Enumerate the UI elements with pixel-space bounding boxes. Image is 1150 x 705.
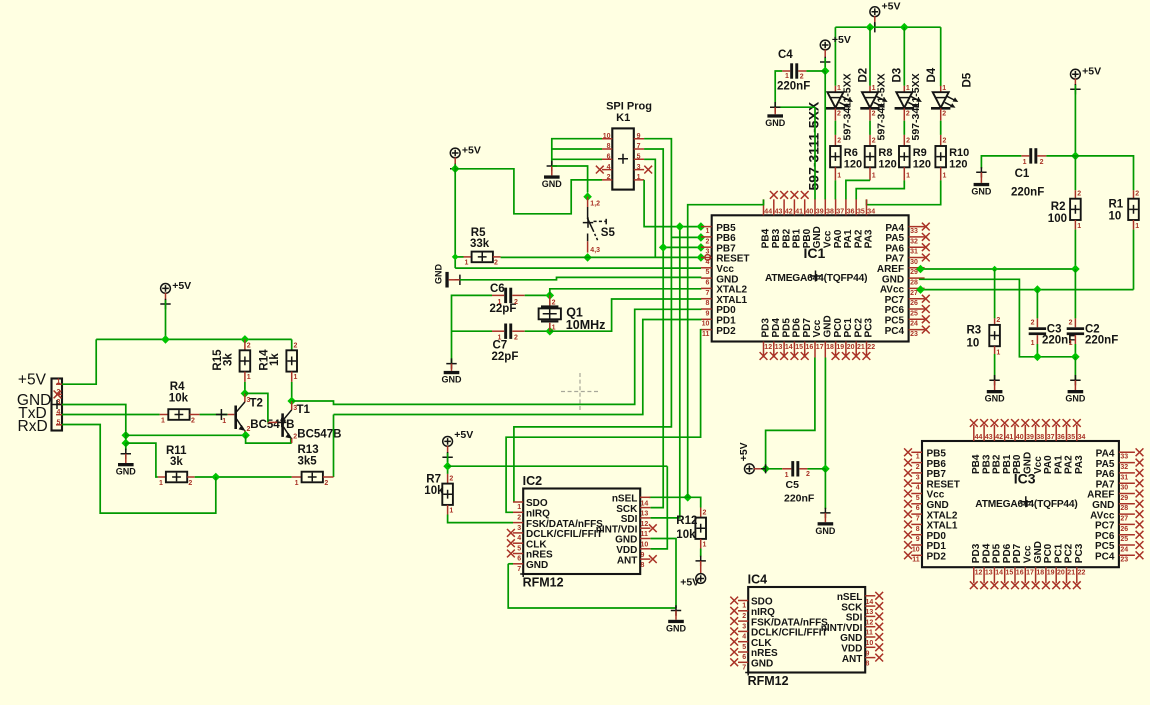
- wire +5V stub R5: [454, 157, 456, 164]
- no-connect IC3 left: [904, 490, 912, 498]
- svg-text:R9: R9: [913, 147, 927, 159]
- pin C6 right: [512, 294, 524, 296]
- svg-text:2: 2: [324, 480, 328, 487]
- svg-text:2: 2: [906, 138, 910, 145]
- pin R15 top: [244, 339, 246, 350]
- svg-text:GND: GND: [666, 623, 687, 633]
- wire C6 to XTAL2: [525, 294, 550, 296]
- no-connect IC3 top: [970, 419, 978, 427]
- svg-text:1: 1: [916, 454, 920, 461]
- svg-text:+5V: +5V: [738, 442, 750, 461]
- svg-text:1: 1: [837, 173, 841, 180]
- pin R11 left: [158, 476, 166, 478]
- wire D5 to resistor: [940, 121, 942, 135]
- svg-text:8: 8: [866, 661, 870, 668]
- wire C2 to GND: [1074, 357, 1076, 380]
- no-connect IC2 nINT: [649, 524, 657, 532]
- svg-text:12: 12: [641, 521, 649, 528]
- svg-text:1: 1: [1135, 223, 1139, 230]
- no-connect IC3 bottom: [980, 581, 988, 589]
- resistor R15: [240, 350, 251, 371]
- ground near K1: [542, 175, 563, 189]
- no-connect IC3 left: [904, 459, 912, 467]
- svg-text:D5: D5: [961, 72, 973, 87]
- svg-text:4: 4: [742, 634, 746, 641]
- wire R10 bottom stub: [940, 167, 942, 180]
- node +5V R5: [451, 165, 460, 174]
- svg-text:5: 5: [517, 545, 521, 552]
- svg-text:SPI Prog: SPI Prog: [606, 101, 652, 113]
- ground C5: [815, 522, 836, 536]
- svg-text:11: 11: [912, 557, 920, 564]
- wire LED supply rail: [835, 26, 940, 28]
- no-connect K1 pin 3: [644, 166, 652, 174]
- IC IC3 pins: [911, 425, 1135, 583]
- no-connect IC3 bottom: [991, 581, 999, 589]
- svg-text:2: 2: [191, 417, 195, 424]
- svg-text:PD2: PD2: [927, 552, 947, 563]
- node Q1 top: [546, 291, 555, 300]
- no-connect IC1 PA7: [922, 254, 930, 262]
- wire +5V stub: [874, 16, 876, 23]
- no-connect IC3 top: [1011, 419, 1019, 427]
- svg-text:24: 24: [1120, 546, 1128, 553]
- svg-text:3: 3: [742, 623, 746, 630]
- svg-text:10: 10: [702, 321, 710, 328]
- wire R6 to PA0: [834, 180, 836, 199]
- wire PB5 to SDI: [651, 227, 680, 518]
- svg-text:1: 1: [552, 325, 556, 332]
- svg-text:31: 31: [1120, 474, 1128, 481]
- pin R3 bottom: [994, 346, 996, 354]
- wire C6 to GND: [452, 295, 493, 363]
- no-connect IC3 bottom: [970, 581, 978, 589]
- node RxD divider: [212, 473, 221, 482]
- pin T2 base: [228, 414, 235, 416]
- wire +5V stub C4: [824, 49, 826, 58]
- wire Vcc row: [455, 267, 701, 269]
- wire PD2 to nIRQ: [506, 330, 701, 513]
- svg-text:9: 9: [866, 650, 870, 657]
- svg-text:43: 43: [985, 434, 993, 441]
- no-connect IC4 right: [875, 633, 883, 641]
- svg-text:42: 42: [995, 434, 1003, 441]
- connector K1 body: [612, 128, 634, 189]
- svg-text:31: 31: [910, 249, 918, 256]
- svg-text:14: 14: [641, 500, 649, 507]
- svg-text:10: 10: [967, 338, 980, 350]
- svg-text:41: 41: [795, 209, 803, 216]
- wire GND stub K1: [551, 166, 553, 175]
- pin C3 top: [1036, 318, 1038, 327]
- no-connect IC3 right: [1136, 459, 1144, 467]
- wire D2 anode stub: [834, 86, 836, 92]
- wire C3 down: [1036, 344, 1038, 357]
- wire D3 cathode stub: [869, 108, 871, 120]
- svg-text:+5V: +5V: [18, 371, 47, 388]
- svg-text:19: 19: [1047, 570, 1055, 577]
- no-connect IC1 PC3: [863, 352, 871, 360]
- resistor R7: [442, 484, 453, 505]
- svg-text:1: 1: [498, 299, 502, 306]
- svg-text:R8: R8: [878, 147, 892, 159]
- pin T2 emitter: [244, 430, 246, 435]
- svg-text:GND: GND: [434, 264, 444, 285]
- svg-text:1: 1: [742, 603, 746, 610]
- svg-text:597-3411-5XX: 597-3411-5XX: [876, 73, 888, 140]
- svg-text:1: 1: [294, 374, 298, 381]
- svg-text:5: 5: [705, 269, 709, 276]
- pin C1 right: [1037, 155, 1046, 157]
- wire R6 bottom stub: [834, 167, 836, 180]
- svg-text:2: 2: [552, 300, 556, 307]
- capacitor C4: [790, 63, 798, 78]
- svg-text:20: 20: [847, 344, 855, 351]
- ground XTAL rotated: [434, 264, 449, 288]
- svg-text:29: 29: [1120, 495, 1128, 502]
- svg-text:R3: R3: [967, 325, 982, 337]
- svg-text:2: 2: [872, 138, 876, 145]
- node C3 gnd: [1033, 353, 1042, 362]
- IC IC4 pins: [738, 596, 875, 672]
- pin R3 top: [994, 318, 996, 325]
- wire D2 cathode stub: [834, 108, 836, 120]
- no-connect IC1 PD3: [760, 352, 768, 360]
- wire resistor top stub D3: [869, 135, 871, 146]
- svg-text:1: 1: [159, 480, 163, 487]
- svg-text:T2: T2: [250, 397, 263, 409]
- svg-text:3k: 3k: [170, 456, 183, 468]
- wire C5 left: [766, 468, 783, 470]
- wire SCK K1 to PB7 to IC2: [644, 149, 663, 508]
- no-connect IC3 right: [1136, 510, 1144, 518]
- svg-text:36: 36: [1057, 434, 1065, 441]
- wire C1 to node: [1046, 155, 1075, 157]
- no-connect IC3 top: [1032, 419, 1040, 427]
- switch S5: [587, 207, 606, 241]
- wire +5V to VDD: [448, 465, 668, 467]
- wire GND down: [125, 443, 127, 450]
- svg-text:17: 17: [1026, 570, 1034, 577]
- svg-text:IC1: IC1: [804, 245, 826, 261]
- node T2 collector: [241, 389, 250, 398]
- no-connect IC1 PD4: [770, 352, 778, 360]
- no-connect IC4 left: [730, 658, 738, 666]
- svg-text:26: 26: [910, 300, 918, 307]
- svg-text:13: 13: [985, 570, 993, 577]
- no-connect IC3 right: [1136, 531, 1144, 539]
- svg-text:6: 6: [705, 280, 709, 287]
- pin GND stub IC2: [675, 611, 677, 620]
- svg-text:4: 4: [57, 409, 61, 416]
- wire +5V to R7: [447, 453, 449, 474]
- svg-text:GND: GND: [1065, 394, 1086, 404]
- wire GND to S5: [552, 166, 588, 193]
- svg-text:1: 1: [996, 349, 1000, 356]
- pin Q1 top: [549, 295, 551, 306]
- wire AREF to C2: [1074, 269, 1076, 318]
- node PB5 branch: [676, 222, 685, 231]
- resistor R14: [286, 350, 297, 371]
- svg-text:4,3: 4,3: [590, 247, 600, 254]
- ground C1: [971, 183, 992, 197]
- node PB7 pin: [697, 243, 706, 252]
- svg-text:4: 4: [705, 259, 709, 266]
- ground IC2: [666, 620, 687, 634]
- svg-text:2: 2: [942, 110, 946, 117]
- no-connect IC4 right: [875, 654, 883, 662]
- resistor R10: [935, 146, 946, 167]
- svg-text:11: 11: [702, 331, 710, 338]
- pin R7 bottom: [447, 505, 449, 515]
- svg-text:1: 1: [1023, 159, 1027, 166]
- svg-text:35: 35: [1067, 434, 1075, 441]
- wire PB4 to nSEL: [688, 200, 764, 494]
- wire K1 pin8 to GND: [552, 148, 602, 150]
- svg-text:3: 3: [916, 474, 920, 481]
- wire resistor top stub D4: [903, 135, 905, 146]
- wire +5V down: [824, 58, 826, 71]
- pin C5 right: [799, 468, 807, 470]
- svg-text:32: 32: [1120, 464, 1128, 471]
- svg-text:10: 10: [1109, 211, 1122, 223]
- no-connect IC4 right: [875, 643, 883, 651]
- wire GND row to IC1 pin6: [460, 277, 702, 279]
- wire Vcc17 to C5: [766, 358, 815, 466]
- pin R14 bottom: [291, 372, 293, 382]
- pin +5V inv stub: [700, 561, 702, 574]
- no-connect IC1 PD6: [791, 352, 799, 360]
- svg-text:R4: R4: [170, 381, 185, 393]
- svg-text:37: 37: [836, 209, 844, 216]
- pin R4 right: [190, 414, 200, 416]
- svg-text:14: 14: [785, 344, 793, 351]
- svg-text:R13: R13: [298, 444, 319, 456]
- wire rail to D2: [834, 27, 836, 86]
- svg-text:1: 1: [222, 418, 226, 425]
- svg-text:26: 26: [1120, 526, 1128, 533]
- wire MOSI K1 to PB5: [644, 180, 701, 227]
- node GND R11: [122, 439, 131, 448]
- svg-text:32: 32: [910, 238, 918, 245]
- no-connect IC3 bottom: [1021, 581, 1029, 589]
- pin R1 bottom: [1133, 220, 1135, 230]
- wire R9 to PA2: [856, 180, 904, 199]
- svg-text:K1: K1: [616, 112, 630, 124]
- no-connect IC3 left: [904, 510, 912, 518]
- wire R4 to T2 base: [200, 414, 228, 416]
- wire K1 pin5 to RESET: [644, 159, 655, 257]
- wire R9 bottom stub: [903, 167, 905, 180]
- no-connect IC3 left: [904, 469, 912, 477]
- pin GND stub left: [125, 454, 127, 463]
- no-connect IC3 right: [1136, 448, 1144, 456]
- node AREF R2: [1071, 265, 1080, 274]
- svg-text:14: 14: [866, 599, 874, 606]
- svg-text:2: 2: [607, 174, 611, 181]
- svg-text:10: 10: [912, 546, 920, 553]
- svg-text:3k5: 3k5: [298, 455, 318, 467]
- IC IC1 pins: [701, 199, 925, 357]
- pin GND rotated: [449, 279, 460, 281]
- svg-text:IC2: IC2: [523, 474, 543, 488]
- svg-text:1: 1: [161, 417, 165, 424]
- no-connect IC3 right: [1136, 521, 1144, 529]
- pin R4 left: [160, 414, 169, 416]
- wire D5 anode stub: [940, 86, 942, 92]
- no-connect IC3 right: [1136, 500, 1144, 508]
- svg-text:1: 1: [465, 260, 469, 267]
- wire IC2 gnd10: [651, 539, 677, 609]
- pin Q1 bottom: [549, 323, 551, 331]
- wire R1 to AVcc: [1133, 230, 1135, 290]
- svg-text:2: 2: [703, 510, 707, 517]
- svg-text:1: 1: [498, 335, 502, 342]
- svg-text:2: 2: [742, 613, 746, 620]
- resistor R11: [166, 472, 187, 483]
- svg-text:1: 1: [785, 472, 789, 479]
- pin C2 bottom: [1074, 335, 1076, 344]
- resistor R4: [168, 409, 189, 420]
- wire D5 cathode stub: [940, 108, 942, 120]
- svg-text:+5V: +5V: [462, 144, 481, 156]
- no-connect IC3 top: [1063, 419, 1071, 427]
- svg-text:27: 27: [1120, 516, 1128, 523]
- wire AGND row: [919, 279, 1076, 357]
- svg-text:1: 1: [872, 173, 876, 180]
- svg-text:S5: S5: [601, 227, 616, 239]
- wire C5 to GND: [824, 469, 826, 509]
- node C4-Vcc: [821, 67, 830, 76]
- svg-text:GND: GND: [985, 394, 1006, 404]
- +5V supply top: [870, 7, 880, 17]
- svg-text:41: 41: [1006, 434, 1014, 441]
- resistor R5: [472, 252, 493, 263]
- svg-text:21: 21: [857, 344, 865, 351]
- no-connect IC3 left: [904, 541, 912, 549]
- wire RESET net: [501, 256, 701, 258]
- no-connect connector pin2: [54, 391, 62, 399]
- svg-text:40: 40: [1016, 434, 1024, 441]
- svg-text:2: 2: [1135, 191, 1139, 198]
- pin GND stub C6: [451, 364, 453, 371]
- svg-text:3k: 3k: [222, 353, 234, 366]
- svg-text:2: 2: [996, 317, 1000, 324]
- svg-text:23: 23: [910, 331, 918, 338]
- svg-text:+5V: +5V: [882, 0, 901, 12]
- resistor R9: [899, 146, 910, 167]
- node T2 emitter: [241, 431, 250, 440]
- svg-text:44: 44: [764, 209, 772, 216]
- svg-text:D4: D4: [926, 67, 938, 82]
- no-connect IC1 PC5: [922, 315, 930, 323]
- svg-text:2: 2: [1077, 191, 1081, 198]
- capacitor C5: [791, 461, 799, 476]
- node R7 +5V: [443, 462, 452, 471]
- wire C2 down: [1074, 344, 1076, 357]
- svg-text:29: 29: [910, 269, 918, 276]
- wire R14 to T1 collector: [291, 382, 293, 401]
- svg-text:2: 2: [247, 342, 251, 349]
- wire GND to T2 emitter: [126, 434, 246, 436]
- pin R11 right: [187, 476, 195, 478]
- svg-text:120: 120: [913, 158, 931, 170]
- no-connect IC1 PD5: [780, 352, 788, 360]
- node rail-D4: [900, 23, 909, 32]
- wire rail to D3: [869, 27, 871, 86]
- wire D3 anode stub: [869, 86, 871, 92]
- svg-text:2: 2: [514, 335, 518, 342]
- ground R3: [985, 390, 1006, 404]
- svg-text:5: 5: [57, 419, 61, 426]
- svg-text:120: 120: [844, 158, 862, 170]
- IC IC2 pins: [513, 497, 650, 573]
- node rail R15: [241, 335, 250, 344]
- svg-text:10: 10: [641, 542, 649, 549]
- wire R10 to PA3: [867, 180, 941, 204]
- svg-text:39: 39: [1026, 434, 1034, 441]
- wire TxD to R4: [62, 414, 160, 416]
- wire VDD riser: [651, 466, 668, 549]
- pin R15 bottom: [244, 372, 246, 382]
- svg-text:ANT: ANT: [617, 555, 638, 566]
- svg-text:PA3: PA3: [864, 229, 875, 248]
- svg-text:+5V: +5V: [172, 280, 191, 292]
- svg-text:13: 13: [775, 344, 783, 351]
- svg-text:PD2: PD2: [716, 326, 736, 337]
- svg-text:2: 2: [705, 238, 709, 245]
- svg-text:7: 7: [517, 566, 521, 573]
- wire GND to R11: [126, 443, 158, 477]
- wire D2 to resistor: [834, 121, 836, 135]
- +5V supply below R12: [696, 574, 706, 584]
- capacitor C6: [504, 288, 512, 303]
- svg-text:GND: GND: [542, 179, 563, 189]
- svg-text:12: 12: [866, 619, 874, 626]
- svg-text:RxD: RxD: [18, 418, 48, 435]
- pin R2 bottom: [1074, 220, 1076, 230]
- no-connect IC3 top: [1052, 419, 1060, 427]
- no-connect IC1 PA6: [922, 243, 930, 251]
- pin R12 bottom: [700, 539, 702, 549]
- svg-text:4: 4: [916, 485, 920, 492]
- svg-text:11: 11: [641, 531, 649, 538]
- no-connect IC3 bottom: [1011, 581, 1019, 589]
- svg-text:18: 18: [1036, 570, 1044, 577]
- wire node to R2: [1074, 156, 1076, 190]
- wire +5V stub R7: [447, 446, 449, 453]
- svg-text:PC4: PC4: [885, 326, 905, 337]
- svg-text:1: 1: [57, 379, 61, 386]
- no-connect IC2 CLK: [507, 539, 515, 547]
- svg-text:17: 17: [816, 344, 824, 351]
- pin C7 right: [512, 330, 524, 332]
- svg-text:IC4: IC4: [748, 573, 768, 587]
- node PB6 pin: [697, 233, 706, 242]
- svg-text:3: 3: [637, 164, 641, 171]
- svg-text:D2: D2: [857, 68, 869, 83]
- node C5 right: [821, 465, 830, 474]
- node C1 R2: [1071, 152, 1080, 161]
- wire PD1 to R13: [333, 415, 335, 478]
- svg-text:2: 2: [1040, 159, 1044, 166]
- pin R7 top: [447, 474, 449, 484]
- wire R2 to AREF: [1074, 230, 1076, 269]
- wire K1 pin6 to GND: [552, 158, 602, 160]
- svg-text:3: 3: [705, 249, 709, 256]
- pin C7 left: [492, 330, 504, 332]
- connector K1 pins: [602, 133, 644, 181]
